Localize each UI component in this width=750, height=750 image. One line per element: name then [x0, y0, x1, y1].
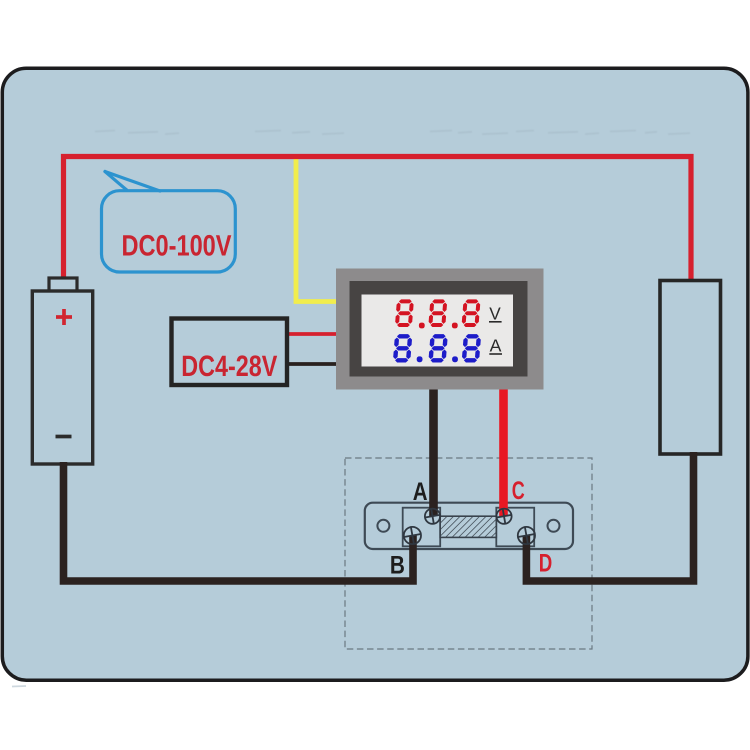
svg-text:V: V — [489, 303, 501, 323]
svg-text:D: D — [539, 550, 553, 578]
svg-text:A: A — [413, 478, 428, 506]
svg-text:DC0-100V: DC0-100V — [122, 230, 232, 263]
svg-text:A: A — [490, 335, 502, 355]
svg-text:DC4-28V: DC4-28V — [181, 350, 277, 383]
svg-text:B: B — [390, 552, 405, 580]
svg-text:C: C — [512, 477, 525, 505]
